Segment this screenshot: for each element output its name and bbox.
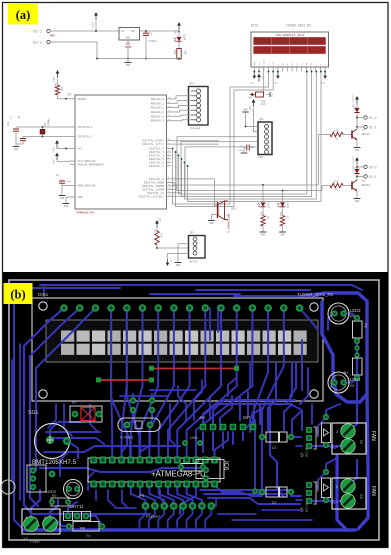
svg-text:DIGITAL_1(TX): DIGITAL_1(TX) [142, 142, 164, 146]
svg-text:R8: R8 [350, 384, 354, 388]
wire T1 emitter [356, 140, 358, 147]
svg-text:LED1: LED1 [350, 377, 361, 382]
supply +5V (ISP) [249, 99, 258, 132]
wire VCC [57, 148, 75, 150]
fan connector X3 with flyback diode [352, 156, 377, 179]
regulator IC6 footprint [196, 460, 229, 482]
svg-text:DHT11: DHT11 [189, 261, 198, 264]
trimmer R16 10k [248, 68, 274, 107]
transistor T1 BD139 [343, 129, 370, 140]
svg-text:ANALOG_0: ANALOG_0 [151, 98, 165, 101]
svg-text:+5V: +5V [53, 159, 56, 164]
svg-text:GND: GND [176, 264, 181, 267]
svg-text:R9: R9 [350, 315, 354, 319]
via pair [354, 345, 359, 357]
LCD silk label TUXGR_16X2_R2 [297, 292, 334, 297]
svg-text:DHT11: DHT11 [70, 504, 84, 509]
resistor R19 10k [153, 229, 162, 245]
resistor R2 220 [330, 181, 343, 192]
resistor R18 330 [173, 42, 187, 60]
svg-text:CONTR: CONTR [263, 59, 266, 66]
svg-text:GND/ANALOG: GND/ANALOG [78, 184, 96, 188]
resistor R7 footprint [70, 401, 102, 422]
svg-text:LED4: LED4 [183, 34, 186, 41]
ground (DHT11) [175, 244, 189, 267]
svg-text:GND: GND [64, 205, 69, 208]
wire GND pin [66, 197, 75, 203]
svg-text:X1-1: X1-1 [369, 126, 377, 130]
ground under buzzer [208, 221, 215, 226]
panel label (a) [8, 4, 38, 25]
svg-text:LED2: LED2 [286, 202, 289, 209]
svg-text:C6: C6 [149, 33, 153, 36]
svg-text:GND: GND [321, 82, 326, 85]
PCB board outline [9, 280, 379, 540]
svg-text:(b): (b) [10, 288, 25, 302]
svg-text:GND: GND [209, 222, 214, 225]
wire T2 emitter [356, 191, 358, 198]
svg-text:DIS1: DIS1 [38, 292, 49, 297]
svg-text:BD139: BD139 [362, 184, 370, 187]
capacitor C6 100nF [143, 30, 157, 59]
svg-text:X3: X3 [360, 494, 364, 499]
svg-text:16MHz: 16MHz [48, 118, 51, 126]
LCD module outline DIS1 [32, 298, 323, 401]
connector JP1 ISP [258, 118, 272, 159]
connector JP3 DHT11 [189, 232, 206, 264]
ground under T2 [354, 199, 361, 204]
svg-text:GND: GND [126, 64, 131, 67]
svg-text:GND: GND [14, 148, 19, 151]
wire LCD RS to DIGITAL_2 [172, 71, 270, 204]
svg-text:330: 330 [259, 212, 262, 217]
svg-text:CRYSTAL1: CRYSTAL1 [78, 126, 93, 129]
svg-text:+12V: +12V [92, 22, 95, 29]
svg-text:1: 1 [336, 500, 338, 504]
svg-text:1N4004: 1N4004 [352, 95, 355, 104]
resistor R1 footprint [344, 355, 362, 381]
ground under C7 C8 [13, 144, 20, 151]
svg-text:X2: X2 [23, 536, 29, 541]
svg-text:220: 220 [334, 181, 339, 184]
svg-text:IC6: IC6 [223, 461, 229, 471]
ground under T1 [354, 148, 361, 153]
svg-text:DIGITAL_13(LED): DIGITAL_13(LED) [139, 194, 164, 198]
resistor R2 footprint [353, 315, 368, 344]
LCD silk label DIS1 [38, 292, 49, 297]
LED LED1 [258, 184, 270, 208]
capacitor C3 footprint [149, 397, 155, 413]
supply +12V [92, 12, 98, 29]
svg-text:1N4004: 1N4004 [352, 156, 355, 165]
wire X2-2 to GND rail [50, 42, 97, 59]
wire T2 collector [356, 178, 358, 180]
svg-text:GND: GND [271, 92, 274, 97]
svg-text:X2-2: X2-2 [33, 42, 43, 46]
wire IC1 GND down [127, 40, 129, 59]
svg-text:GND: GND [261, 234, 266, 237]
svg-text:GND: GND [274, 82, 279, 85]
wire DIGITAL_12 to ISP [171, 142, 258, 193]
svg-text:+5V: +5V [159, 217, 162, 222]
svg-text:DIS1: DIS1 [251, 24, 259, 28]
svg-text:BD139: BD139 [362, 133, 370, 136]
wire DIGITAL_13 to ISP [171, 147, 258, 196]
svg-text:RESET: RESET [78, 98, 87, 101]
svg-text:100n: 100n [190, 436, 198, 440]
LCD pin pads [60, 304, 303, 312]
ground under IC1 [125, 59, 132, 68]
svg-text:X3-1: X3-1 [369, 175, 377, 179]
transistor T2 BD139 [343, 180, 370, 191]
svg-text:ANALOG_2: ANALOG_2 [151, 107, 165, 110]
panel label (b) [4, 283, 33, 304]
connector JP2 footprint [27, 465, 55, 492]
wire X2-1 to IC1 IN [50, 30, 119, 32]
svg-text:R18: R18 [173, 50, 176, 55]
via near D2 [252, 488, 258, 494]
svg-text:TUXGR_16X2_R2: TUXGR_16X2_R2 [286, 24, 311, 28]
svg-text:JP3: JP3 [190, 232, 195, 235]
connector JP4 Keypad [189, 83, 209, 131]
wire +12V stem [95, 21, 97, 32]
svg-text:GND: GND [243, 109, 248, 112]
svg-text:27: 27 [168, 114, 170, 117]
svg-text:DIGITAL_0(RX): DIGITAL_0(RX) [142, 139, 164, 143]
svg-text:1: 1 [25, 516, 27, 520]
svg-text:Q3: Q3 [300, 507, 304, 512]
svg-text:JP1: JP1 [259, 118, 264, 121]
wire LCD data D4-D7 bus [178, 71, 322, 202]
svg-text:VCC: VCC [78, 148, 84, 151]
resistor R6 footprint [66, 522, 105, 539]
svg-text:330: 330 [184, 50, 187, 55]
connector DHT11 footprint [64, 504, 91, 521]
fan terminal X1 driver Q1 diode D1 [259, 414, 376, 457]
svg-text:220: 220 [334, 130, 339, 133]
svg-text:GND: GND [355, 149, 360, 152]
svg-text:10k: 10k [54, 82, 58, 87]
svg-text:R9: R9 [52, 494, 56, 498]
supply +5V (LCD VCC) [257, 71, 264, 82]
svg-text:D1: D1 [272, 446, 276, 450]
wire DIGITAL_10 net [171, 186, 330, 191]
svg-text:X1-2: X1-2 [369, 116, 377, 120]
svg-text:BMT1205XH7.5: BMT1205XH7.5 [227, 214, 230, 233]
buzzer SG1 [218, 201, 237, 233]
resistor R1 220 [330, 130, 343, 141]
svg-text:D2: D2 [272, 501, 276, 505]
wire GND rail [96, 58, 180, 60]
LCD character cells [61, 331, 307, 355]
svg-text:VCC/ANALOG: VCC/ANALOG [78, 159, 96, 163]
fan connector X1 with flyback diode [352, 95, 377, 129]
svg-text:GND: GND [78, 196, 84, 199]
svg-text:GND: GND [251, 82, 256, 85]
supply +5V (LED4 branch) [175, 22, 181, 35]
ground under R4 [260, 232, 267, 237]
wire red trace 2 [96, 377, 154, 382]
svg-text:R2: R2 [364, 323, 368, 328]
LED LED2 [277, 190, 289, 209]
svg-text:FAN: FAN [370, 486, 376, 496]
wire LCD E to DIGITAL_3 [175, 71, 275, 207]
ground (analog) [59, 196, 66, 201]
svg-text:BD139: BD139 [305, 502, 309, 512]
svg-text:GND: GND [126, 37, 131, 40]
microcontroller IC2 ATMEGA8-PU [75, 95, 171, 215]
capacitor C2 footprint [130, 397, 136, 413]
svg-text:330: 330 [279, 212, 282, 217]
svg-text:BD139: BD139 [305, 447, 309, 457]
connector ISP footprint [199, 415, 256, 430]
svg-text:C7: C7 [10, 115, 13, 119]
wire red trace 1 [149, 366, 239, 371]
svg-text:Keypad: Keypad [146, 514, 160, 519]
PCB board background [3, 272, 388, 548]
connector X2-1 [33, 29, 55, 37]
svg-text:JP4: JP4 [189, 83, 194, 86]
svg-text:+5V: +5V [249, 106, 252, 111]
svg-text:+12V: +12V [353, 104, 356, 111]
connector JP4 Keypad footprint [138, 494, 215, 519]
wire VCC/ANALOG [57, 161, 75, 165]
svg-text:Keypad: Keypad [190, 126, 200, 130]
wire buzzer to ground [212, 215, 218, 221]
svg-text:R16: R16 [261, 103, 266, 106]
svg-text:ANALOG_5: ANALOG_5 [151, 120, 165, 123]
svg-text:100n: 100n [238, 149, 244, 152]
diode D5 footprint [178, 464, 206, 472]
capacitor C1 footprint [182, 436, 203, 446]
resistor R17 10k [54, 79, 64, 95]
svg-text:+5V: +5V [53, 147, 56, 152]
wire DIGITAL_11 to ISP [171, 137, 258, 190]
svg-text:R2: R2 [335, 189, 339, 192]
wire DIGITAL_9 net [171, 182, 319, 185]
wire PCB trace network [12, 285, 368, 530]
svg-text:OUT: OUT [131, 30, 136, 33]
supply +5V (DHT11 feed) [166, 254, 189, 267]
svg-text:GND: GND [355, 200, 360, 203]
connector X2-2 [33, 40, 50, 45]
crystal Q2 16MHz [40, 118, 51, 138]
svg-text:ISP: ISP [243, 415, 250, 420]
svg-text:C8: C8 [18, 115, 21, 119]
wire DIGITAL_8 to buzzer [171, 179, 217, 206]
LED LED3 footprint [328, 303, 361, 324]
svg-text:2: 2 [336, 430, 338, 434]
wire analog bus to JP4 [171, 96, 191, 121]
svg-text:2: 2 [44, 516, 46, 520]
svg-text:22p: 22p [7, 121, 10, 126]
svg-text:GND: GND [280, 234, 285, 237]
svg-text:SG1: SG1 [28, 410, 38, 416]
svg-text:LED3: LED3 [350, 308, 361, 313]
svg-text:CRYSTAL2: CRYSTAL2 [78, 136, 93, 139]
buzzer SG1 footprint [35, 424, 72, 459]
svg-text:PWR: PWR [30, 539, 40, 544]
voltage regulator IC1 7805 [119, 28, 140, 50]
svg-text:+5V: +5V [53, 77, 56, 82]
LCD display DIS1 TUXGR_16X2_R2 [251, 24, 329, 72]
svg-text:JP4: JP4 [138, 494, 145, 498]
silk label BMT1205XH7.5 [32, 459, 77, 466]
svg-text:PWR: PWR [50, 35, 55, 38]
microcontroller IC ATMEGA8-PU footprint [88, 457, 220, 488]
svg-text:LED1: LED1 [267, 202, 270, 209]
svg-text:ANALOG_3: ANALOG_3 [151, 111, 165, 114]
terminal X2 PWR [22, 509, 60, 544]
capacitor C5 100nF [56, 174, 72, 186]
svg-text:DIGITAL_7: DIGITAL_7 [149, 165, 164, 168]
svg-text:R1: R1 [335, 138, 339, 141]
svg-text:R19: R19 [160, 233, 163, 238]
wire CRYSTAL1 [16, 126, 75, 128]
svg-text:JP2: JP2 [67, 94, 72, 97]
svg-text:X3-2: X3-2 [369, 165, 377, 169]
svg-text:+12V: +12V [353, 165, 356, 172]
mounting hole left [1, 480, 15, 494]
wire IC1 OUT to +5V node [140, 30, 180, 32]
svg-text:(a): (a) [16, 8, 31, 22]
svg-text:GND: GND [60, 197, 65, 200]
svg-text:ATMEGA8-PU: ATMEGA8-PU [76, 212, 94, 215]
svg-text:ANALOG_4: ANALOG_4 [151, 115, 165, 118]
wire DIGITAL_1 TX [171, 143, 219, 145]
svg-text:SG1: SG1 [231, 208, 236, 211]
svg-text:FAN: FAN [370, 431, 376, 441]
svg-text:R6: R6 [80, 526, 86, 531]
svg-text:ANALOG_REFERENCE: ANALOG_REFERENCE [78, 164, 104, 167]
supply +5V (VCC) [53, 140, 59, 152]
wire R19 to DHT11 [156, 245, 188, 249]
svg-text:LCD DISPLAY 16x2: LCD DISPLAY 16x2 [276, 34, 305, 37]
svg-text:R17: R17 [60, 87, 63, 92]
resistor R4 330 [259, 207, 269, 232]
supply +5V (AVCC) [53, 153, 59, 165]
svg-text:X2-1: X2-1 [33, 31, 43, 35]
LED LED1 footprint [328, 372, 361, 393]
svg-text:2: 2 [336, 485, 338, 489]
ground above ISP [242, 109, 258, 128]
svg-text:100n: 100n [66, 180, 72, 183]
svg-text:R6: R6 [86, 534, 91, 538]
svg-text:+5V: +5V [170, 259, 173, 264]
ground (LCD RW) [274, 71, 280, 85]
svg-text:ISP: ISP [258, 156, 263, 159]
svg-text:JP3: JP3 [199, 416, 205, 420]
ground under R5 [279, 232, 286, 237]
svg-text:10k: 10k [153, 229, 156, 234]
wire DIGITAL_0 RX [171, 140, 219, 142]
capacitor C7 22pF [7, 115, 19, 144]
ground (digital) [63, 204, 70, 209]
svg-text:7: 7 [168, 163, 169, 166]
fan terminal X3 driver Q3 diode D2 [259, 469, 376, 512]
supply +5V (reset) [53, 70, 59, 82]
svg-text:+5V: +5V [248, 97, 253, 100]
svg-text:TUXGR_16X2_R2: TUXGR_16X2_R2 [297, 292, 334, 297]
svg-text:+5V: +5V [175, 30, 178, 35]
capacitor C1 100nF [238, 145, 254, 154]
silk label SG1 [28, 410, 38, 416]
wire T1 collector [356, 127, 358, 129]
wire net A riser [319, 135, 331, 186]
ground (LCD K) [321, 71, 327, 85]
svg-text:4.0MHz: 4.0MHz [120, 435, 134, 440]
svg-text:X1: X1 [360, 439, 364, 444]
supply +5V (DHT11 pullup) [155, 217, 162, 228]
svg-text:100nF: 100nF [149, 40, 158, 43]
LED LED2 footprint [46, 480, 83, 499]
crystal Q2 footprint [118, 418, 160, 440]
wire R17 to RESET [58, 94, 76, 100]
svg-text:R7: R7 [72, 401, 77, 405]
resistor R9 footprint [49, 494, 71, 506]
wire GND/ANALOG [62, 186, 75, 196]
LED LED4 [174, 31, 186, 42]
svg-text:ANALOG_1: ANALOG_1 [151, 102, 165, 105]
svg-text:1: 1 [336, 445, 338, 449]
LCD display window [46, 320, 318, 362]
svg-text:Q1: Q1 [300, 452, 304, 457]
wire CRYSTAL2 [23, 136, 75, 138]
resistor R5 330 [279, 207, 289, 232]
ground (LCD pin1) [251, 71, 257, 85]
capacitor C8 22pF [16, 115, 26, 144]
